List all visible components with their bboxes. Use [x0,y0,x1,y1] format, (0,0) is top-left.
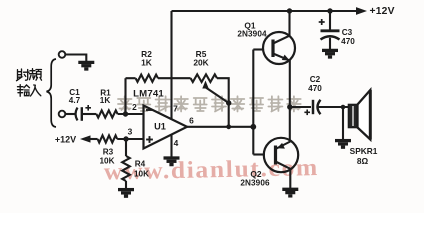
wire Q2 emitter up [289,107,291,142]
wire +12V rail [172,10,358,12]
svg-text:R3: R3 [103,148,114,157]
svg-text:6: 6 [189,116,194,126]
wire op-amp output pin6 [187,126,253,128]
resistor R2 [136,75,158,82]
wire pin4 to ground [170,134,172,157]
transistor Q1 2N3904 [263,32,295,64]
svg-text:10K: 10K [99,157,114,166]
wire base bus vertical [252,50,254,155]
svg-text:10K: 10K [134,170,149,179]
wire feedback left [126,77,136,79]
wire Q1 emitter down [289,60,291,107]
wire input top to ground [66,55,87,62]
watermark: gray company text [118,96,301,111]
ground (Q2) [282,189,298,196]
node output to bases [250,124,256,130]
svg-text:7: 7 [173,104,178,114]
R5 wiper arrow [202,81,208,89]
wire R1 to op-amp pin2, node [118,113,144,115]
svg-text:8Ω: 8Ω [357,156,369,166]
node noninverting input [123,136,128,141]
wire input bottom to C1 [66,113,76,115]
wire C1 to R1 [82,113,97,115]
speaker SPKR1 [349,105,358,128]
wire R5 right and down [217,78,229,127]
resistor R3 [98,135,118,142]
svg-text:1K: 1K [141,58,152,68]
svg-text:SPKR1: SPKR1 [350,146,378,156]
node emitter junction [287,104,292,109]
op-amp U1 LM741 [144,106,188,149]
svg-text:2N3904: 2N3904 [237,30,267,39]
wire pin7 to +12V rail [170,11,172,120]
potentiometer R5 [191,74,217,82]
svg-text:470: 470 [308,84,322,93]
wire Q2 collector to ground [289,169,291,189]
svg-text:Q2: Q2 [250,169,262,179]
wire R2 to R5 [158,77,191,79]
terminal input top [59,51,66,58]
ground (C3) [322,50,338,57]
svg-text:20K: 20K [193,58,208,68]
node inverting input [123,111,128,116]
svg-text:3: 3 [128,127,133,137]
svg-text:2N3906: 2N3906 [240,179,270,188]
resistor R1 [96,110,117,117]
ground (input) [78,62,94,69]
svg-text:2: 2 [132,102,137,112]
svg-text:4: 4 [174,138,179,148]
wire to Q1 base [253,48,264,50]
wire R3 to op-amp pin3, node [117,138,143,140]
wire pin2 node up to feedback [124,78,126,114]
label RF input (Chinese) [17,69,42,97]
svg-text:+12V: +12V [370,6,395,17]
wire C2 to speaker [319,106,349,108]
svg-text:470: 470 [341,37,355,46]
plus input mark [146,136,153,143]
brace input group [47,59,57,127]
terminal input bottom [59,111,66,118]
svg-text:C3: C3 [342,28,353,37]
svg-text:LM741: LM741 [133,89,164,100]
ground (speaker) [335,141,351,148]
capacitor C2 [312,100,315,114]
node Q1 collector at rail [287,8,292,13]
wire emitters to C2, node [290,106,311,108]
minus input mark [146,109,153,111]
resistor R4 [125,139,127,156]
wire to Q2 base [253,153,265,155]
svg-text:4.7: 4.7 [69,96,81,105]
svg-text:1K: 1K [100,96,111,105]
wire +12V arrow to R3 [89,138,98,140]
capacitor C1 [76,108,78,121]
svg-text:+12V: +12V [55,134,76,144]
ground (R4) [118,190,134,197]
svg-text:R4: R4 [135,160,146,169]
node feedback to output [226,124,231,129]
wire speaker ground stub [342,107,344,140]
node C3 at rail [327,8,332,13]
transistor Q2 2N3906 [264,138,298,172]
capacitor C3 [329,11,331,30]
wire Q1 collector to rail [288,11,290,36]
svg-text:U1: U1 [154,122,166,132]
ground (pin4) [164,158,180,165]
node wiper junction [226,100,231,105]
svg-text:C2: C2 [310,75,321,84]
